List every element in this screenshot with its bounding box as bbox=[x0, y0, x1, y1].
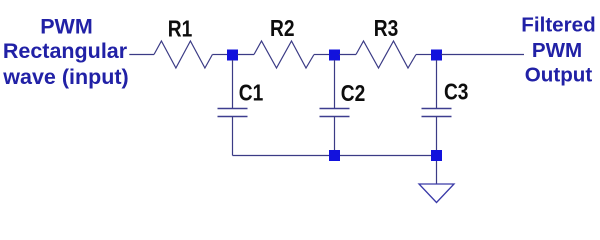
wire node 1 to C1 bbox=[232, 60, 234, 109]
resistor R1 bbox=[154, 41, 212, 68]
node label: PWM Rectangular wave (input) bbox=[2, 14, 128, 89]
svg-text:wave (input): wave (input) bbox=[2, 65, 128, 89]
junction node 3 bbox=[431, 50, 442, 61]
junction node 4 (C2 to rail) bbox=[329, 150, 340, 161]
resistor R3 bbox=[356, 41, 416, 68]
wire ground rail bbox=[233, 155, 437, 157]
wire node 5 to ground bbox=[436, 161, 438, 184]
svg-text:PWM: PWM bbox=[40, 14, 93, 38]
capacitor C3 bbox=[422, 109, 452, 117]
svg-text:Rectangular: Rectangular bbox=[3, 39, 128, 63]
junction node 1 bbox=[227, 50, 238, 61]
capacitor C1 bbox=[218, 109, 248, 117]
wire input to R1 bbox=[129, 54, 154, 56]
junction node 2 bbox=[329, 50, 340, 61]
wire C1 to ground rail bbox=[232, 117, 234, 156]
svg-text:R2: R2 bbox=[270, 15, 295, 41]
capacitor C2 bbox=[320, 109, 350, 117]
wire R2 to node 2 bbox=[314, 54, 330, 56]
junction node 5 (C3 to rail) bbox=[431, 150, 442, 161]
wire node 3 to C3 bbox=[436, 60, 438, 109]
wire node 2 to C2 bbox=[334, 60, 336, 109]
svg-text:R3: R3 bbox=[374, 15, 399, 41]
svg-text:C3: C3 bbox=[444, 79, 469, 105]
wire C3 to ground rail bbox=[436, 117, 438, 153]
ground bbox=[419, 184, 454, 203]
wire C2 to ground rail bbox=[334, 117, 336, 153]
svg-text:Output: Output bbox=[525, 64, 593, 87]
wire R3 to node 3 bbox=[416, 54, 432, 56]
svg-text:R1: R1 bbox=[168, 15, 193, 41]
wire node 3 to output bbox=[441, 54, 524, 56]
svg-text:C2: C2 bbox=[341, 80, 366, 106]
svg-text:C1: C1 bbox=[239, 79, 264, 105]
svg-text:PWM: PWM bbox=[532, 39, 582, 62]
wire node 1 to R2 bbox=[237, 54, 254, 56]
resistor R2 bbox=[254, 41, 314, 68]
wire R1 to node 1 bbox=[212, 54, 228, 56]
node label: Filtered PWM Output bbox=[521, 14, 595, 87]
wire node 2 to R3 bbox=[339, 54, 356, 56]
svg-text:Filtered: Filtered bbox=[521, 14, 595, 37]
